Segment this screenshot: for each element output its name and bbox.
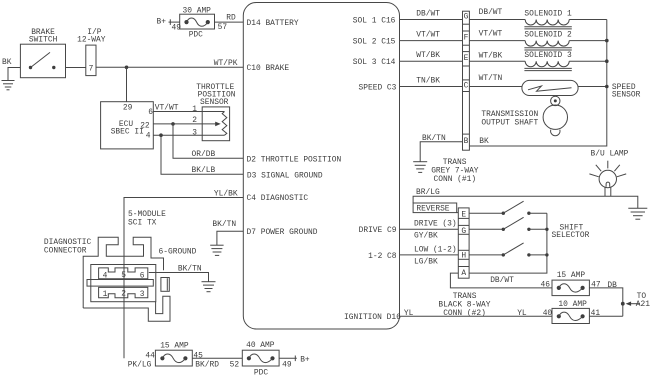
svg-text:PK/LG: PK/LG — [128, 360, 152, 369]
svg-text:7: 7 — [89, 64, 94, 73]
connector I/P 12-WAY pin 7 — [77, 28, 106, 76]
svg-text:1: 1 — [103, 290, 108, 299]
svg-text:D7 POWER GROUND: D7 POWER GROUND — [247, 228, 318, 237]
wire fuse F3 to B+ — [279, 355, 310, 364]
svg-text:WT/BK: WT/BK — [479, 51, 503, 60]
ground G2 — [210, 245, 223, 255]
wire BK to brake switch — [2, 58, 20, 80]
ground G3 — [202, 282, 216, 292]
svg-text:YL/BK: YL/BK — [214, 190, 238, 199]
svg-text:SOL 3 C14: SOL 3 C14 — [353, 58, 396, 67]
throttle position sensor U3 — [196, 83, 235, 141]
svg-text:DRIVE C9: DRIVE C9 — [359, 226, 397, 235]
wire B+ to fuse F1 — [157, 17, 182, 32]
ground G5 lamp — [628, 208, 647, 219]
svg-text:H: H — [461, 252, 466, 261]
wire VT/WT ECU 6 to TPS 1 — [153, 104, 224, 114]
brake switch S1 — [20, 28, 65, 78]
svg-text:1-2 C8: 1-2 C8 — [368, 252, 397, 261]
fuse F1 30 AMP PDC — [180, 6, 215, 39]
svg-text:BR/LG: BR/LG — [416, 188, 440, 197]
transmission case right edge — [469, 20, 606, 147]
wire LOW (1-2) LG/BK PCM C8 to conn J3 H — [400, 245, 459, 266]
diagnostic connector J1 middle band — [87, 280, 153, 287]
svg-text:F: F — [464, 34, 469, 43]
svg-text:B+: B+ — [157, 17, 167, 26]
label TRANS BLACK 8-WAY CONN (#2) — [438, 292, 490, 318]
svg-text:CONN (#1): CONN (#1) — [434, 175, 477, 184]
shift selector switch row H — [469, 243, 547, 257]
svg-text:PDC: PDC — [189, 30, 203, 39]
svg-text:G: G — [461, 227, 466, 236]
svg-text:GY/BK: GY/BK — [414, 232, 438, 241]
svg-text:BK: BK — [479, 137, 489, 146]
svg-text:SBEC II: SBEC II — [111, 128, 144, 137]
svg-text:1: 1 — [192, 105, 197, 114]
svg-text:BK/TN: BK/TN — [212, 220, 236, 229]
node on wire 4 — [159, 133, 163, 137]
wire DB/WT PCM C16 to conn1 G — [400, 10, 463, 20]
diagnostic connector J1 lower pin row 1 2 3 — [99, 287, 148, 299]
connector strip J3 trans black 8-way — [458, 208, 469, 278]
wire WT/BK PCM C14 to conn1 E — [400, 51, 463, 61]
svg-text:TN/BK: TN/BK — [416, 77, 440, 86]
label TRANS GREY 7-WAY CONN (#1) — [431, 158, 479, 184]
svg-text:IGNITION D16: IGNITION D16 — [344, 313, 401, 322]
svg-text:B/U LAMP: B/U LAMP — [591, 149, 629, 158]
wire BK/TN PCM D7 to ground — [212, 220, 243, 245]
svg-text:10 AMP: 10 AMP — [558, 300, 587, 309]
svg-text:5: 5 — [121, 271, 126, 280]
speed sensor pickup — [469, 74, 606, 96]
fuse F4 15 AMP — [552, 271, 617, 295]
svg-text:BK/RD: BK/RD — [195, 360, 219, 369]
svg-text:VT/WT: VT/WT — [155, 104, 179, 113]
svg-text:YL: YL — [404, 309, 414, 318]
svg-text:6: 6 — [148, 108, 153, 117]
svg-text:49: 49 — [282, 361, 292, 370]
node bus row H — [545, 253, 548, 256]
svg-text:PDC: PDC — [254, 368, 268, 377]
svg-text:A: A — [461, 269, 466, 278]
wire DB/WT conn J3 A to fuse F4 — [450, 273, 552, 290]
svg-text:DB: DB — [607, 281, 617, 290]
svg-text:WT/BK: WT/BK — [416, 51, 440, 60]
svg-text:B: B — [464, 137, 469, 146]
svg-text:C4 DIAGNOSTIC: C4 DIAGNOSTIC — [247, 194, 309, 203]
solenoid 1 L1 — [469, 8, 606, 29]
svg-text:SOL 2 C15: SOL 2 C15 — [353, 38, 396, 47]
svg-text:SENSOR: SENSOR — [200, 98, 229, 107]
solenoid 2 L2 — [469, 30, 606, 51]
svg-text:DB/WT: DB/WT — [416, 10, 440, 19]
svg-text:BK/LB: BK/LB — [192, 166, 216, 175]
svg-text:15 AMP: 15 AMP — [160, 342, 189, 351]
svg-text:DRIVE (3): DRIVE (3) — [414, 220, 457, 229]
wire junction down to ECU pin 29 — [126, 67, 128, 101]
label SHIFT SELECTOR — [552, 223, 590, 240]
diagnostic connector J1 inner frame — [91, 265, 156, 302]
svg-text:CONNECTOR: CONNECTOR — [44, 247, 87, 256]
node brake/ECU junction — [125, 66, 129, 70]
svg-text:3: 3 — [140, 290, 145, 299]
svg-text:46: 46 — [541, 281, 551, 290]
svg-text:BK: BK — [2, 58, 12, 67]
fuse F5 10 AMP — [552, 300, 600, 324]
svg-text:RD: RD — [226, 14, 236, 23]
diagnostic connector J1 upper pin row 4 5 6 — [99, 268, 148, 281]
svg-text:BK/TN: BK/TN — [178, 264, 202, 273]
svg-text:49: 49 — [172, 24, 182, 33]
svg-text:12-WAY: 12-WAY — [77, 36, 106, 45]
PCM U1 main module — [243, 3, 401, 330]
wire fuse F2 to fuse F3 — [192, 357, 242, 359]
svg-text:SOLENOID 2: SOLENOID 2 — [524, 30, 572, 39]
svg-text:WT/PK: WT/PK — [214, 59, 238, 68]
svg-text:C10 BRAKE: C10 BRAKE — [247, 64, 290, 73]
svg-text:22: 22 — [140, 121, 150, 130]
arrow TO A21 — [626, 292, 650, 309]
wire DRIVE (3) GY/BK PCM C9 to conn J3 G — [400, 220, 459, 241]
svg-text:SCI TX: SCI TX — [128, 219, 157, 228]
svg-text:4: 4 — [146, 131, 151, 140]
svg-text:VT/WT: VT/WT — [416, 31, 440, 40]
svg-text:40: 40 — [543, 309, 553, 318]
shift selector switch row G — [469, 217, 547, 231]
svg-text:45: 45 — [193, 352, 203, 361]
svg-text:OUTPUT SHAFT: OUTPUT SHAFT — [481, 119, 538, 128]
wire ECU 22 to TPS 2 wiper — [153, 116, 220, 126]
svg-text:OR/DB: OR/DB — [192, 150, 216, 159]
label box REVERSE — [413, 203, 458, 214]
svg-text:YL: YL — [517, 309, 527, 318]
svg-text:44: 44 — [145, 352, 155, 361]
svg-text:29: 29 — [123, 103, 133, 112]
svg-text:2: 2 — [121, 290, 126, 299]
ECU U2 SBEC II — [101, 102, 154, 149]
node bus row G — [545, 228, 548, 231]
svg-text:SENSOR: SENSOR — [612, 91, 641, 100]
svg-text:2: 2 — [192, 116, 197, 125]
diagnostic connector J1 bottom shell and foot — [83, 296, 170, 321]
svg-text:SOLENOID 1: SOLENOID 1 — [524, 9, 572, 18]
ground G4 — [413, 162, 427, 173]
svg-text:DB/WT: DB/WT — [490, 276, 514, 285]
svg-text:52: 52 — [230, 361, 240, 370]
svg-text:E: E — [461, 211, 466, 220]
ground G1 — [2, 81, 15, 90]
node A21 junction — [621, 302, 625, 306]
shift selector switch row E — [469, 201, 547, 215]
transmission output shaft symbol — [481, 96, 567, 136]
wire BK/LB ECU4 node to PCM D3 — [161, 135, 243, 175]
svg-text:BK/TN: BK/TN — [422, 134, 446, 143]
svg-text:A21: A21 — [636, 300, 650, 309]
svg-text:SPEED C3: SPEED C3 — [359, 83, 397, 92]
wire DB fuse F4 to junction — [589, 288, 622, 316]
wire RD fuse F1 to PCM D14 — [215, 14, 244, 33]
diagnostic connector J1 key slot — [161, 278, 169, 292]
wire BK/TN conn1 B to ground — [420, 134, 462, 162]
svg-text:D14 BATTERY: D14 BATTERY — [247, 19, 299, 28]
wire ECU 4 to TPS 3 — [153, 129, 224, 138]
svg-text:DB/WT: DB/WT — [479, 8, 503, 17]
fuse F2 15 AMP — [128, 342, 220, 370]
svg-text:SOL 1 C16: SOL 1 C16 — [353, 16, 396, 25]
svg-text:G: G — [464, 12, 469, 21]
svg-text:SWITCH: SWITCH — [29, 36, 58, 45]
svg-text:REVERSE: REVERSE — [416, 205, 449, 214]
svg-text:B+: B+ — [300, 355, 310, 364]
svg-text:SELECTOR: SELECTOR — [552, 231, 590, 240]
wire WT/PK from I/P to PCM C10 — [96, 59, 243, 68]
solenoid 3 L3 — [469, 51, 606, 71]
svg-text:15 AMP: 15 AMP — [557, 271, 586, 280]
svg-text:LG/BK: LG/BK — [414, 258, 438, 267]
wire YL/BK PCM C4 to diagnostic connector pin 5 — [124, 190, 243, 359]
svg-text:SOLENOID 3: SOLENOID 3 — [524, 51, 572, 60]
svg-text:3: 3 — [192, 129, 197, 138]
wire BK/TN diag pin6 to ground — [149, 264, 209, 281]
wire BR/LG reverse lamp circuit — [413, 188, 638, 208]
label SPEED SENSOR — [612, 83, 641, 100]
svg-text:WT/TN: WT/TN — [479, 74, 503, 83]
wire OR/DB ECU22 node to PCM D2 — [173, 124, 243, 159]
svg-text:D2 THROTTLE POSITION: D2 THROTTLE POSITION — [247, 156, 342, 165]
wire fuse F5 to junction — [589, 315, 622, 317]
svg-text:VT/WT: VT/WT — [479, 30, 503, 39]
svg-text:E: E — [464, 54, 469, 63]
svg-text:40 AMP: 40 AMP — [246, 341, 275, 350]
node on wire 22 — [171, 122, 175, 126]
wire brake switch to I/P connector — [66, 67, 86, 69]
wire VT/WT PCM C15 to conn1 F — [400, 31, 463, 41]
lamp B/U LAMP — [589, 149, 628, 196]
node solenoid 3 to case — [605, 59, 609, 63]
wire YL PCM D16 to fuse F5 — [400, 309, 553, 318]
svg-text:C: C — [464, 81, 469, 90]
shift selector common bus — [469, 213, 547, 273]
wire TN/BK PCM C3 to conn1 C — [400, 77, 463, 87]
diagnostic connector J1 labels — [44, 210, 197, 256]
node speed sensor to case — [605, 85, 609, 89]
svg-text:D3 SIGNAL GROUND: D3 SIGNAL GROUND — [247, 171, 323, 180]
fuse F3 40 AMP PDC — [230, 341, 292, 377]
svg-text:6-GROUND: 6-GROUND — [159, 247, 197, 256]
diagnostic connector J1 outer shell — [83, 237, 163, 308]
connector strip J2 trans grey 7-way — [463, 11, 470, 150]
svg-text:LOW (1-2): LOW (1-2) — [414, 245, 457, 254]
svg-text:57: 57 — [218, 23, 228, 32]
node solenoid 2 to case — [605, 39, 609, 43]
